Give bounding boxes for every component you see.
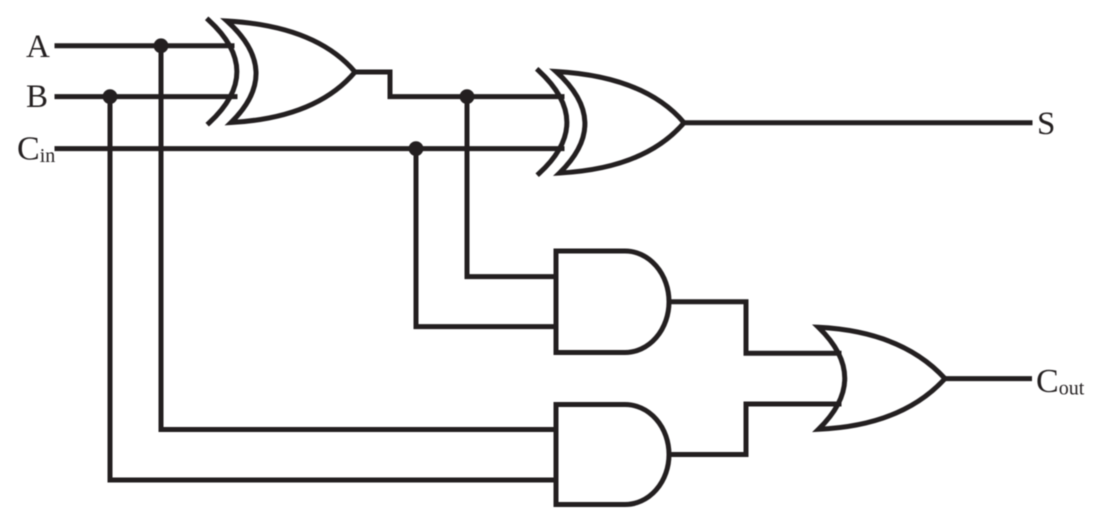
wire Cin to AND1 (vertical down then right) [416, 149, 556, 327]
wire A to AND2 (vertical down then right) [161, 46, 556, 430]
xor-gate U2 (sum XOR) input arc [539, 71, 567, 174]
node Cin junction [409, 141, 424, 156]
wire B to AND2 (vertical down then right) [110, 97, 556, 480]
xor-gate U1 (A XOR B) body [227, 21, 355, 123]
node XOR1-output junction [460, 89, 475, 104]
or-gate U5 (carry OR) [819, 327, 946, 429]
wire XOR1 output to XOR2 top input [355, 72, 562, 97]
svg-text:B: B [26, 79, 48, 115]
wire AND1 output to OR top input [669, 302, 839, 354]
wire XOR2 output to S [684, 120, 1030, 125]
svg-text:Cout: Cout [1036, 363, 1085, 400]
and-gate U4 (lower AND) [556, 405, 669, 505]
svg-text:S: S [1037, 106, 1055, 142]
wire Cin input [57, 146, 562, 151]
and-gate U3 (upper AND) [556, 251, 669, 353]
wire A input [57, 43, 232, 48]
svg-text:A: A [26, 29, 50, 65]
svg-text:Cin: Cin [17, 131, 55, 168]
node A junction [154, 38, 169, 53]
xor-gate U2 (sum XOR) body [556, 72, 684, 174]
wire AND2 output to OR bottom input [669, 404, 839, 455]
wire B input [57, 94, 235, 99]
node B junction [103, 89, 118, 104]
xor-gate U1 (A XOR B) input arc [209, 20, 237, 123]
wire XOR1-output branch to AND1 (vertical down then right) [467, 97, 556, 277]
wire OR output to Cout [945, 376, 1030, 381]
